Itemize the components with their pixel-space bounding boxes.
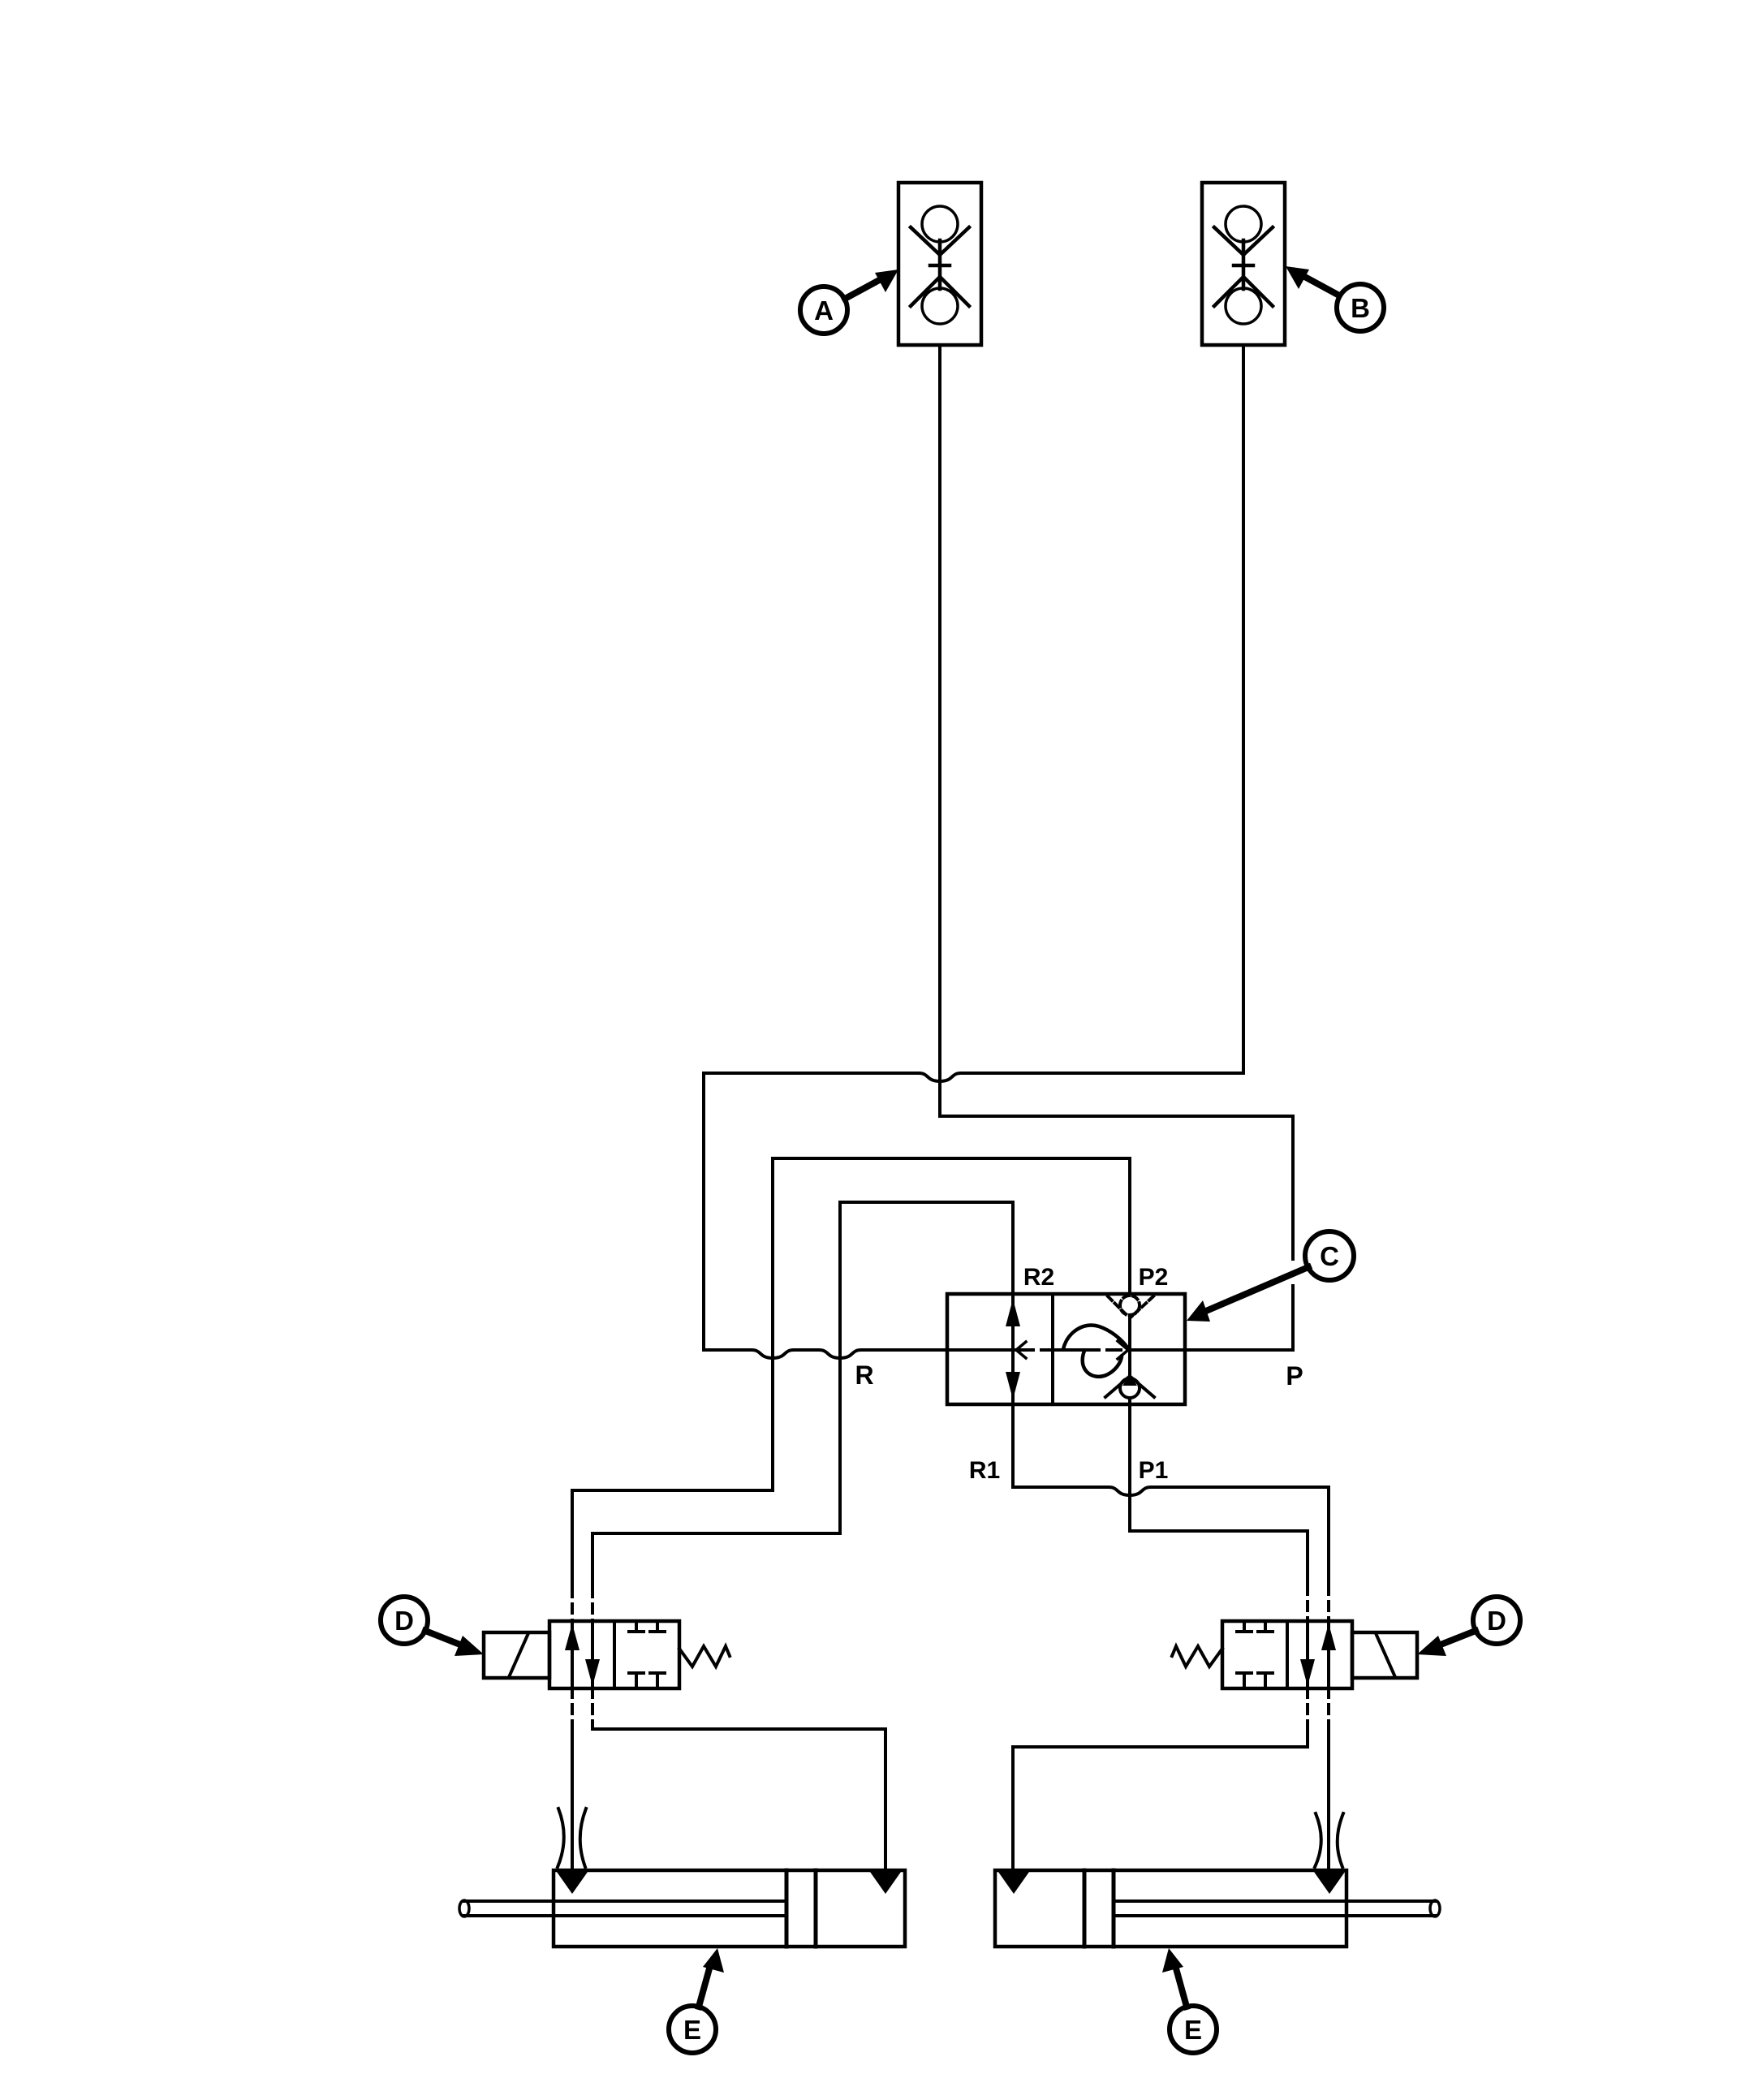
wire R1 route with crossing dip xyxy=(1013,1404,1329,1585)
wire R line with two crossing dips xyxy=(704,1350,1015,1358)
valve C P2-P1 vertical xyxy=(1128,1317,1131,1404)
wire P1 route xyxy=(1130,1404,1308,1585)
port arrow into right cylinder cap end xyxy=(998,1872,1029,1894)
wire R1 dashes into right valve xyxy=(1327,1585,1330,1622)
label B xyxy=(1286,266,1384,331)
label D left xyxy=(381,1597,484,1656)
wire B down xyxy=(1242,345,1245,1073)
label A xyxy=(800,270,898,334)
valve C pilot arrow right xyxy=(1118,1341,1128,1359)
svg-text:C: C xyxy=(1320,1241,1339,1271)
wire P riser xyxy=(1291,1116,1295,1350)
svg-text:R1: R1 xyxy=(969,1457,1000,1484)
port arrow into right cylinder rod end xyxy=(1314,1872,1345,1894)
port arrow into left cylinder cap end xyxy=(870,1872,901,1894)
valve C divider xyxy=(1051,1294,1054,1404)
svg-text:R: R xyxy=(855,1360,873,1390)
wire A elbow to P riser xyxy=(940,1115,1293,1118)
label D right xyxy=(1417,1597,1520,1656)
svg-text:A: A xyxy=(814,295,834,326)
right valve down-flow arrow xyxy=(1300,1621,1315,1688)
svg-text:P: P xyxy=(1286,1361,1303,1391)
left valve blocked ports xyxy=(629,1621,665,1688)
svg-text:B: B xyxy=(1351,293,1370,323)
svg-text:D: D xyxy=(1487,1606,1506,1636)
svg-text:E: E xyxy=(683,2015,701,2045)
wire A down xyxy=(938,345,941,1116)
label E left xyxy=(669,1948,724,2053)
wire R riser xyxy=(702,1073,705,1350)
label C xyxy=(1187,1231,1354,1322)
valve C rotary arcs xyxy=(1063,1326,1127,1349)
valve C top check (pilot, dashed) xyxy=(1108,1296,1153,1317)
right valve spring xyxy=(1172,1646,1222,1667)
right valve solenoid xyxy=(1352,1632,1417,1678)
left valve solenoid xyxy=(484,1632,549,1678)
valve C R2-R1 passage xyxy=(1006,1294,1020,1404)
wire P1 dashes into right valve xyxy=(1306,1585,1309,1622)
wire P2 top route xyxy=(572,1158,1130,1588)
left valve D body xyxy=(549,1621,679,1688)
valve C pilot dashed line xyxy=(1019,1348,1125,1352)
wire left valve to left cylinder rod end xyxy=(571,1688,574,1872)
restrictor right xyxy=(1315,1813,1343,1867)
svg-text:D: D xyxy=(394,1606,414,1636)
wire R2 dashes into left valve xyxy=(591,1588,594,1622)
wire left valve to left cylinder cap end xyxy=(592,1688,885,1872)
wire P2 dashes into left valve xyxy=(571,1588,574,1622)
coupler B xyxy=(1202,183,1285,345)
restrictor left xyxy=(558,1809,586,1867)
right valve blocked ports xyxy=(1237,1621,1273,1688)
svg-text:R2: R2 xyxy=(1023,1264,1054,1291)
wire R2 top route xyxy=(592,1202,1013,1588)
right valve D body xyxy=(1222,1621,1352,1688)
svg-text:P2: P2 xyxy=(1139,1264,1169,1291)
cylinder E left xyxy=(459,1870,905,1947)
left valve spring xyxy=(679,1646,730,1667)
wire right valve to right cylinder cap end xyxy=(1013,1688,1308,1872)
wire B elbow horizontal with crossing dip xyxy=(704,1073,1243,1081)
valve C pilot solid stub xyxy=(1053,1348,1086,1352)
right valve up-flow arrow xyxy=(1321,1621,1336,1688)
wire right valve to right cylinder rod end xyxy=(1327,1688,1330,1872)
port arrow into left cylinder rod end xyxy=(557,1872,588,1894)
valve C bottom check xyxy=(1105,1375,1154,1398)
wire P line xyxy=(1130,1348,1293,1352)
label E right xyxy=(1162,1948,1217,2053)
svg-text:P1: P1 xyxy=(1139,1457,1169,1484)
svg-text:E: E xyxy=(1184,2015,1202,2045)
valve C pilot arrow left xyxy=(1016,1342,1026,1358)
coupler A xyxy=(898,183,981,345)
left valve down-flow arrow xyxy=(585,1621,600,1688)
cylinder E right xyxy=(995,1870,1440,1947)
valve C body xyxy=(947,1294,1185,1404)
left valve up-flow arrow xyxy=(565,1621,580,1688)
